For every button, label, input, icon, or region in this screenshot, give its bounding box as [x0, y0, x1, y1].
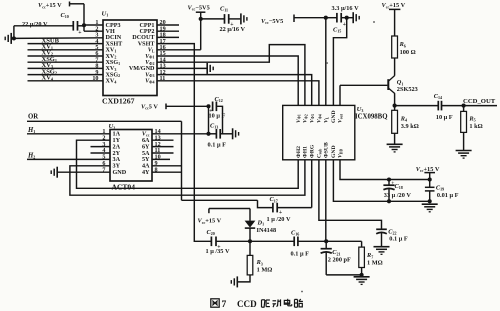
svg-text:CCD_OUT: CCD_OUT [463, 98, 496, 105]
svg-text:H2: H2 [27, 152, 35, 159]
svg-text:3A: 3A [113, 157, 121, 163]
wire U2 pin10 stub [152, 158, 170, 160]
resistor R5 1kohm [463, 106, 465, 112]
capacitor C19 0.01uF [429, 180, 431, 188]
node GND rail / C18 [387, 199, 391, 203]
svg-text:VDD: VDD [338, 149, 344, 158]
svg-text:8: 8 [95, 64, 98, 70]
capacitor C11 22u/16V [201, 18, 225, 20]
wire -5V5 down to U3 VL pin [325, 18, 327, 106]
svg-text:OR: OR [28, 113, 38, 120]
ground (R3) [236, 276, 238, 287]
svg-text:CPP1: CPP1 [139, 23, 154, 29]
svg-text:4: 4 [95, 39, 98, 45]
svg-text:C18: C18 [395, 183, 403, 190]
svg-text:C17: C17 [270, 196, 278, 203]
svg-text:VΦ4: VΦ4 [145, 79, 154, 85]
wire Vcc5V down to U2 pin14 row [208, 106, 210, 134]
ground (top left) [10, 33, 12, 44]
svg-text:22 μ/20 V: 22 μ/20 V [22, 21, 48, 28]
node SUB [324, 239, 328, 243]
wire C10 left to ground node [14, 25, 73, 27]
svg-text:2A: 2A [113, 144, 121, 150]
svg-text:+: + [78, 30, 81, 36]
svg-text:C14: C14 [434, 93, 442, 100]
svg-text:XSG1: XSG1 [106, 60, 121, 66]
svg-text:R3: R3 [256, 259, 263, 266]
svg-text:U3: U3 [357, 106, 364, 113]
svg-text:CXD1267: CXD1267 [102, 96, 135, 105]
svg-text:VSHT: VSHT [138, 41, 156, 47]
resistor R7 1Mohm (right) [359, 247, 365, 267]
svg-text:Vcc+15 V: Vcc+15 V [416, 166, 440, 173]
wire U2 pin3 stub [91, 146, 111, 148]
svg-text:1Y: 1Y [113, 138, 121, 144]
svg-text:5: 5 [95, 45, 98, 51]
svg-text:1A: 1A [113, 132, 121, 138]
ground (R5) [456, 150, 472, 152]
capacitor C18 33u/20V [388, 180, 390, 185]
wire U2 pin6 3Y wrap to U3 phiH1 [70, 160, 305, 195]
IC U2 ACT04 box [110, 130, 152, 182]
svg-text:C16: C16 [291, 230, 299, 237]
node C15/ground [345, 16, 349, 20]
wire D1 node to C16 [250, 240, 294, 242]
svg-text:1: 1 [95, 20, 98, 26]
svg-text:VΦ1: VΦ1 [296, 114, 302, 123]
svg-text:1 MΩ: 1 MΩ [257, 266, 273, 273]
node Q1 source [393, 104, 397, 108]
svg-text:XV1: XV1 [106, 48, 117, 54]
svg-text:5Y: 5Y [142, 157, 150, 163]
svg-text:C21: C21 [332, 249, 340, 256]
svg-text:R4: R4 [400, 115, 407, 122]
capacitor C22 0.1uF [376, 228, 387, 230]
svg-text:4A: 4A [142, 164, 150, 170]
resistor R4 3.9kohm [394, 106, 396, 111]
svg-text:D1: D1 [257, 219, 265, 226]
ground (C15) [352, 12, 354, 23]
wire U1 pin11 to U3 Vphi4 column [157, 81, 319, 106]
svg-text:Vcc+15 V: Vcc+15 V [382, 2, 406, 9]
node D1/SUB rail [248, 239, 252, 243]
wire U1 pin15 to U3 Vphi1 column [157, 56, 298, 105]
svg-text:6A: 6A [142, 138, 150, 144]
wire U2 pin14 Vcc row [152, 133, 209, 135]
svg-text:Vcc−5V5: Vcc−5V5 [261, 18, 283, 25]
svg-text:3.3 μ/16 V: 3.3 μ/16 V [332, 5, 360, 12]
svg-text:2SK523: 2SK523 [397, 86, 418, 93]
svg-text:XSHT: XSHT [106, 41, 124, 47]
wire C14 to CCD_OUT [442, 105, 498, 107]
svg-text:VΦ2: VΦ2 [303, 114, 309, 123]
node -5V5/U3 VL [324, 16, 328, 20]
wire U3 Csub column to C22 [319, 160, 382, 229]
wire U1 pin12 to U3 Vphi3 column [157, 75, 312, 106]
svg-text:5A: 5A [142, 151, 150, 157]
svg-text:7: 7 [95, 57, 98, 63]
wire U2 pin13 stub [152, 139, 174, 141]
wire node A to U1 pin3 DCIN [14, 37, 103, 40]
svg-text:1 kΩ: 1 kΩ [469, 123, 482, 130]
svg-text:ICX098BQ: ICX098BQ [355, 113, 387, 120]
ground (C19) [422, 203, 438, 205]
wire H1 to U2 pin1 [27, 133, 110, 135]
svg-text:1 MΩ: 1 MΩ [367, 259, 383, 266]
wire U3 VDD column to +15V rail [340, 160, 430, 180]
svg-text:VΦ1: VΦ1 [145, 54, 154, 60]
svg-text:GND: GND [113, 170, 127, 176]
svg-text:C15: C15 [333, 27, 341, 34]
wire U1 pin19 CPP2 stub [157, 30, 179, 32]
wire C10 right / +15V to U1 pins 1,2 [78, 25, 85, 27]
svg-text:XV4: XV4 [42, 75, 54, 82]
svg-text:C13: C13 [210, 123, 218, 130]
scan specks [373, 21, 375, 23]
svg-text:XV3: XV3 [106, 66, 117, 72]
svg-text:10 μ F: 10 μ F [436, 114, 453, 121]
wire U3 phiSUB column down [325, 160, 327, 242]
svg-text:CCD: CCD [237, 299, 257, 309]
svg-text:R5: R5 [468, 116, 475, 123]
svg-text:ΦRG: ΦRG [309, 144, 315, 158]
wire U1 pin16 VL to -5V5 node [157, 49, 201, 51]
svg-text:VL: VL [324, 116, 330, 123]
svg-text:0.01 μ F: 0.01 μ F [437, 192, 459, 199]
svg-text:Csub: Csub [317, 149, 323, 158]
svg-text:0.1 μ F: 0.1 μ F [389, 235, 408, 242]
svg-text:+: + [343, 22, 346, 28]
input signal lines XSUB,XV1,XV2,XSG1,XV3,XSG2,XV4 [28, 43, 104, 45]
svg-text:XV2: XV2 [106, 54, 117, 60]
transistor Q1 2SK523 [389, 75, 395, 81]
wire U1 pin14 bridge to U3 Vphi2 column [157, 45, 305, 106]
ground (C13) [232, 128, 234, 139]
svg-text:GND: GND [331, 145, 337, 158]
ground (U2 GND pin7) [56, 167, 58, 178]
svg-text:XSG2: XSG2 [106, 72, 121, 78]
svg-text:6: 6 [95, 51, 98, 57]
svg-text:VL: VL [148, 48, 155, 54]
svg-text:1 μ /20 V: 1 μ /20 V [267, 216, 291, 223]
svg-text:22 μ/16 V: 22 μ/16 V [220, 26, 246, 33]
node R7 ground [360, 273, 364, 277]
ground (R4) [387, 143, 403, 145]
svg-text:DCOUT: DCOUT [132, 35, 155, 41]
wire U1 pin17 VSHT down to C20 [157, 44, 211, 242]
svg-text:100 Ω: 100 Ω [400, 49, 416, 56]
wire U2 pin2 1Y wrap to U3 phiH2 [77, 140, 299, 188]
wire ground jog down to U3 GND top pin [333, 18, 346, 106]
svg-text:U1: U1 [102, 11, 109, 18]
wire C16 to SUB node [298, 240, 326, 242]
wire U1 pin18 DCOUT stub [157, 36, 179, 38]
wire C21 bottom rail to R7 ground [326, 274, 361, 276]
svg-text:ΦH2: ΦH2 [296, 146, 302, 158]
wire Q1 source to output node [394, 93, 396, 105]
svg-text:VΦ4: VΦ4 [317, 114, 323, 123]
op IC U1 CXD1267 box [103, 20, 157, 96]
resistor R6 100ohm [392, 36, 398, 58]
svg-text:GND: GND [331, 110, 337, 123]
wire RG net to C17 [182, 199, 258, 201]
svg-text:H1: H1 [27, 127, 35, 134]
wire U2 pin4 stub [91, 152, 111, 154]
svg-text:C20: C20 [207, 229, 215, 236]
ground (C11) [240, 13, 242, 24]
wire U2 pin12 stub [152, 146, 174, 148]
node C13 [206, 132, 210, 136]
svg-text:C11: C11 [220, 6, 228, 13]
svg-text:Vcc−5V5: Vcc−5V5 [188, 4, 210, 11]
wire H2 to U2 pin5 [27, 158, 110, 160]
node CCD_OUT [462, 104, 466, 108]
svg-text:2Y: 2Y [113, 151, 121, 157]
wire U2 pin9 to OR vertical [152, 165, 182, 167]
svg-text:0.1 μ F: 0.1 μ F [208, 142, 227, 149]
svg-text:33 μ /20 V: 33 μ /20 V [384, 192, 412, 199]
svg-text:XV4: XV4 [106, 79, 117, 85]
svg-text:ACT04: ACT04 [112, 183, 136, 192]
wire C20 to D1 node [216, 240, 250, 242]
wire U1 pin20 CPP1 stub [157, 24, 179, 26]
svg-text:2: 2 [95, 26, 98, 32]
svg-text:Vcc: Vcc [142, 132, 150, 138]
capacitor C14 10uF [395, 105, 439, 107]
wire U1 pin13 VM/GND to ground [157, 67, 207, 69]
svg-text:U2: U2 [109, 123, 116, 130]
wire U2 pin8 to OR vertical [152, 171, 182, 173]
node A (ground/DCIN) [12, 36, 16, 40]
svg-text:1 μ /35 V: 1 μ /35 V [206, 248, 230, 255]
ground (R7/C21) [354, 276, 370, 278]
wire OR line to RG net vertical [27, 120, 182, 122]
svg-text:ΦSUB: ΦSUB [324, 142, 330, 158]
svg-text:Vout: Vout [338, 113, 344, 123]
ground (C22) [374, 246, 390, 248]
wire U3 GND column to ground rail [333, 160, 429, 202]
svg-text:CPP2: CPP2 [139, 29, 154, 35]
svg-text:R7: R7 [366, 252, 373, 259]
svg-text:3: 3 [95, 33, 98, 39]
svg-text:VM/GND: VM/GND [129, 66, 155, 72]
node VDD rail / C18 [387, 177, 391, 181]
svg-text:VΦ2: VΦ2 [145, 60, 154, 66]
svg-text:IN4148: IN4148 [257, 227, 277, 234]
svg-text:CPP3: CPP3 [106, 23, 121, 29]
wire U2 pin11 stub [152, 152, 174, 154]
svg-text:DCIN: DCIN [106, 35, 122, 41]
svg-text:VΦ3: VΦ3 [309, 114, 315, 123]
resistor R3 1Mohm (mid) [249, 241, 251, 255]
svg-text:Vcc+15 V: Vcc+15 V [38, 2, 62, 9]
svg-text:VΦ3: VΦ3 [145, 72, 154, 78]
svg-text:4Y: 4Y [142, 170, 150, 176]
svg-text:0.1 μ F: 0.1 μ F [291, 251, 310, 258]
svg-text:ΦH1: ΦH1 [303, 146, 309, 158]
svg-text:7: 7 [222, 299, 227, 310]
svg-text:R6: R6 [399, 41, 406, 48]
svg-text:3.9 kΩ: 3.9 kΩ [401, 123, 419, 130]
svg-text:Vcc+15 V: Vcc+15 V [198, 218, 222, 225]
wire U3 Vout to Q1 gate [340, 84, 387, 86]
svg-text:10: 10 [92, 76, 98, 82]
wire SUB node to R7 [326, 240, 361, 242]
wire C17 to U3 phiRG column [277, 207, 312, 209]
svg-text:VH: VH [106, 29, 115, 35]
capacitor C21 2200pF [325, 241, 327, 248]
svg-text:2 200 pF: 2 200 pF [328, 256, 351, 263]
power Vcc+15V (diode clamp) [208, 209, 210, 214]
node -5V5/VL [199, 17, 203, 21]
wire R6 to Q1 drain [394, 58, 396, 75]
ground (VM/GND) [206, 63, 208, 74]
svg-text:C19: C19 [436, 184, 444, 191]
svg-text:10 μ F: 10 μ F [209, 112, 226, 119]
svg-text:6Y: 6Y [142, 144, 150, 150]
svg-text:Vcc5 V: Vcc5 V [141, 103, 158, 110]
caption: figure 7 CCD drive circuit [211, 299, 219, 307]
svg-text:3Y: 3Y [113, 164, 121, 170]
IC U3 ICX098BQ box [283, 105, 355, 159]
diode D1 1N4148 [249, 209, 251, 221]
svg-text:C10: C10 [61, 12, 69, 19]
node Vcc5V/C12 [206, 104, 210, 108]
svg-text:9: 9 [95, 70, 98, 76]
